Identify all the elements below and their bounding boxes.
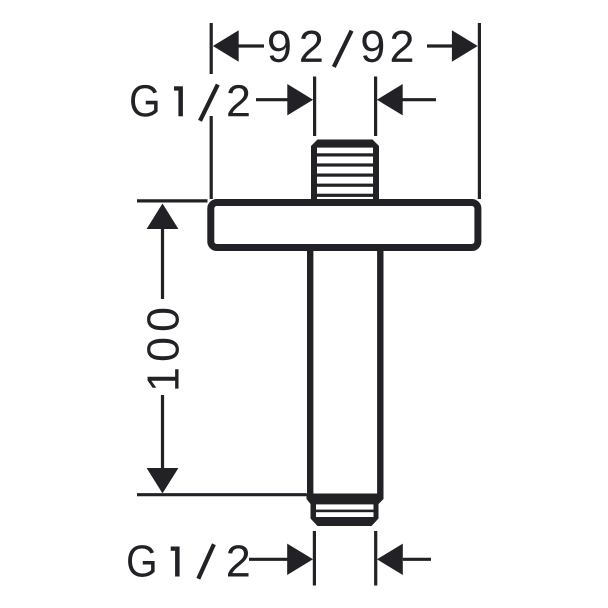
extension line left (upper segment) (210, 23, 213, 74)
shower arm pipe (307, 245, 384, 499)
dimension 92/92 (211, 23, 479, 199)
dimension G1/2 top (256, 77, 436, 137)
label 92/92: digit 9 (second) (362, 30, 383, 62)
extension line left (313, 531, 316, 586)
label G 1/2 bottom: 1 (stem) (175, 547, 180, 577)
extension line right (374, 77, 377, 137)
label 100 (rotated) (147, 309, 179, 389)
arrow pointing left (bottom G1/2) (377, 544, 403, 575)
ceiling flange plate (211, 203, 478, 248)
label 92/92: digit 2 (301, 30, 322, 61)
label G 1/2 top: slash (200, 85, 218, 121)
arrow right of 92/92 (452, 30, 478, 61)
arrow pointing right (top G1/2) (287, 84, 313, 115)
dimension line left (249, 558, 288, 561)
dimension line right (402, 98, 436, 101)
bottom thread stripes (316, 504, 374, 509)
label 92/92: digit 2 (second) (392, 30, 413, 61)
arrow left of 92/92 (213, 30, 239, 61)
top thread stripes (317, 153, 373, 156)
label 92/92 slash (334, 31, 352, 67)
arrow pointing right (bottom G1/2) (287, 544, 313, 575)
arrow pointing left (top G1/2) (377, 84, 403, 115)
dimension line right (403, 558, 431, 561)
dimension line left (238, 44, 264, 47)
label G 1/2 top: G (131, 85, 158, 117)
label G 1/2 bottom: G (128, 545, 155, 577)
arrow down (100) (147, 468, 179, 493)
top thread nipple G1/2 (311, 140, 379, 200)
extension line right (478, 23, 481, 199)
extension line left (313, 77, 316, 137)
label G 1/2 bottom: slash (198, 544, 214, 578)
dimension G1/2 bottom (249, 531, 431, 586)
label G 1/2 bottom: 1 (flag) (171, 547, 176, 551)
dimension line left (256, 98, 288, 101)
extension line bottom (137, 493, 307, 496)
label G 1/2 top: 2 (228, 85, 249, 116)
dimension 100 left (137, 201, 307, 495)
dimension line upper segment (161, 228, 164, 299)
label G 1/2 top: 1 (stem) (178, 86, 183, 116)
label G 1/2 bottom: 2 (228, 545, 249, 576)
extension line left (lower segment) (210, 116, 213, 199)
extension line right (374, 531, 377, 586)
bottom thread nipple G1/2 (307, 494, 384, 527)
label G 1/2 top: 1 (flag) (174, 86, 179, 90)
arrow up (100) (147, 204, 179, 230)
dimension line right (427, 44, 453, 47)
extension line top (137, 199, 208, 202)
dimension line lower segment (161, 395, 164, 469)
label 92/92: digit 9 (269, 30, 290, 62)
